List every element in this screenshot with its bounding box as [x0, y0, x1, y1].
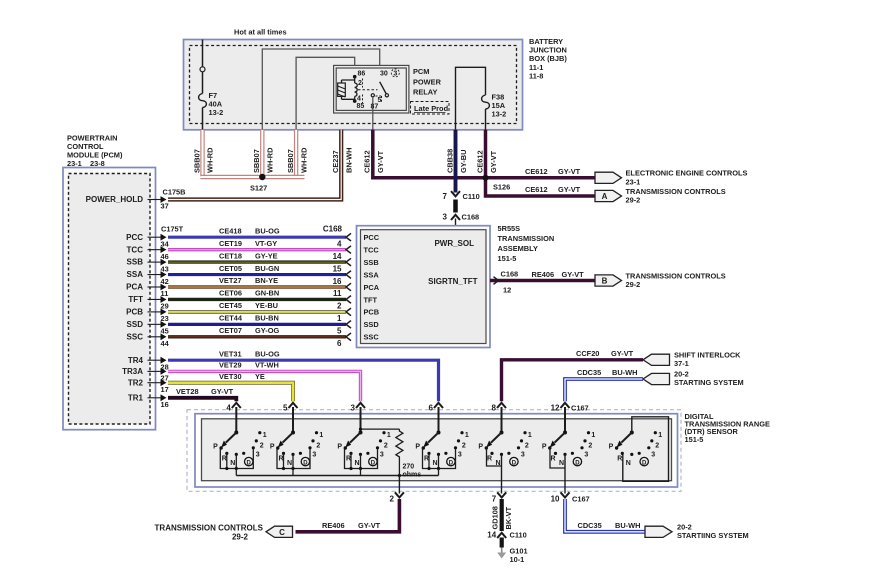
svg-text:87: 87: [371, 104, 379, 111]
svg-text:VT-GY: VT-GY: [255, 239, 277, 248]
svg-text:23-1: 23-1: [626, 178, 641, 187]
svg-text:29-2: 29-2: [626, 280, 641, 289]
svg-text:PCA: PCA: [364, 283, 380, 292]
svg-text:PCM: PCM: [413, 67, 429, 76]
svg-text:POWER: POWER: [413, 77, 442, 86]
svg-text:BU-WH: BU-WH: [612, 368, 637, 377]
svg-text:5R55S: 5R55S: [498, 224, 521, 233]
svg-text:CE612: CE612: [525, 185, 548, 194]
svg-text:CET05: CET05: [219, 264, 242, 273]
svg-text:TRANSMISSION: TRANSMISSION: [498, 234, 555, 243]
svg-text:3: 3: [393, 71, 397, 78]
svg-text:B: B: [602, 277, 608, 286]
svg-text:C: C: [279, 528, 285, 537]
svg-text:2: 2: [390, 495, 395, 504]
svg-text:GY-VT: GY-VT: [611, 349, 634, 358]
svg-text:7: 7: [443, 192, 448, 201]
svg-text:C168: C168: [323, 225, 343, 234]
svg-text:13-2: 13-2: [209, 108, 224, 117]
svg-text:37-1: 37-1: [674, 359, 689, 368]
svg-text:Late Prod: Late Prod: [414, 104, 449, 113]
svg-text:1: 1: [658, 432, 662, 439]
svg-text:BU-GN: BU-GN: [255, 264, 279, 273]
svg-text:SSB: SSB: [364, 258, 379, 267]
svg-text:YE: YE: [255, 372, 265, 381]
svg-text:CET18: CET18: [219, 251, 242, 260]
svg-text:5: 5: [283, 404, 288, 413]
svg-text:37: 37: [161, 202, 169, 211]
svg-text:CET45: CET45: [219, 301, 242, 310]
svg-text:BU-OG: BU-OG: [255, 226, 280, 235]
svg-text:BU-WH: BU-WH: [615, 521, 640, 530]
svg-text:11: 11: [333, 289, 342, 298]
svg-text:10: 10: [551, 495, 560, 504]
svg-text:CCF20: CCF20: [576, 349, 599, 358]
svg-text:SSB: SSB: [127, 258, 144, 267]
svg-text:8: 8: [492, 404, 497, 413]
svg-text:WH-RD: WH-RD: [266, 147, 275, 173]
svg-text:17: 17: [161, 385, 169, 394]
svg-text:PWR_SOL: PWR_SOL: [434, 239, 474, 248]
svg-text:SBB07: SBB07: [193, 149, 202, 173]
svg-text:85: 85: [357, 103, 365, 110]
svg-text:CDC35: CDC35: [577, 368, 601, 377]
svg-text:SSA: SSA: [127, 270, 144, 279]
svg-text:C175T: C175T: [161, 225, 184, 234]
svg-text:7: 7: [492, 495, 497, 504]
svg-text:TR1: TR1: [128, 393, 144, 402]
svg-text:VT-WH: VT-WH: [255, 361, 279, 370]
svg-text:BN-YE: BN-YE: [255, 276, 278, 285]
svg-text:CET06: CET06: [219, 289, 242, 298]
svg-text:WH-RD: WH-RD: [206, 147, 215, 173]
svg-text:6: 6: [337, 339, 342, 348]
svg-text:Hot at all times: Hot at all times: [234, 28, 287, 37]
svg-text:BK-VT: BK-VT: [504, 506, 513, 529]
svg-text:5: 5: [337, 327, 342, 336]
svg-text:GY-VT: GY-VT: [558, 167, 581, 176]
svg-text:S127: S127: [250, 184, 267, 193]
svg-text:WH-RD: WH-RD: [300, 147, 309, 173]
svg-text:ELECTRONIC ENGINE CONTROLS: ELECTRONIC ENGINE CONTROLS: [626, 169, 748, 178]
svg-text:CE237: CE237: [331, 150, 340, 173]
svg-text:C110: C110: [463, 192, 480, 201]
svg-text:2: 2: [358, 80, 362, 87]
svg-text:29-2: 29-2: [232, 533, 249, 542]
svg-text:SSC: SSC: [364, 333, 380, 342]
svg-text:P: P: [609, 444, 614, 451]
svg-text:TRANSMISSION CONTROLS: TRANSMISSION CONTROLS: [626, 187, 726, 196]
svg-text:151-5: 151-5: [498, 254, 517, 263]
svg-text:N: N: [626, 460, 631, 467]
svg-text:SSD: SSD: [127, 320, 144, 329]
svg-text:11-8: 11-8: [529, 71, 543, 80]
svg-text:VET27: VET27: [219, 276, 242, 285]
svg-text:PCB: PCB: [126, 308, 143, 317]
svg-text:TR2: TR2: [128, 378, 144, 387]
svg-text:C168: C168: [501, 270, 519, 279]
svg-text:10-1: 10-1: [510, 555, 525, 564]
svg-text:4: 4: [226, 404, 231, 413]
svg-text:C167: C167: [572, 495, 590, 504]
svg-text:SSA: SSA: [364, 270, 380, 279]
svg-text:RELAY: RELAY: [413, 88, 437, 97]
svg-text:16: 16: [333, 277, 342, 286]
svg-text:6: 6: [429, 404, 434, 413]
svg-text:CDC35: CDC35: [578, 521, 602, 530]
svg-text:GY-VT: GY-VT: [376, 150, 385, 173]
svg-text:TCC: TCC: [364, 245, 380, 254]
svg-text:STARTIING SYSTEM: STARTIING SYSTEM: [677, 531, 749, 540]
svg-text:270: 270: [403, 464, 415, 471]
svg-text:12: 12: [551, 404, 560, 413]
svg-text:BU-BN: BU-BN: [255, 314, 279, 323]
svg-text:C110: C110: [510, 531, 527, 540]
svg-text:86: 86: [358, 71, 366, 78]
svg-text:C167: C167: [571, 404, 589, 413]
svg-text:23-1: 23-1: [67, 159, 82, 168]
svg-text:RE406: RE406: [532, 270, 555, 279]
svg-text:15: 15: [333, 264, 342, 273]
svg-text:2: 2: [337, 302, 342, 311]
svg-text:STARTING SYSTEM: STARTING SYSTEM: [674, 378, 744, 387]
svg-text:3: 3: [651, 452, 655, 459]
svg-text:3: 3: [443, 213, 448, 222]
svg-text:TR3A: TR3A: [122, 367, 143, 376]
svg-text:YE-BU: YE-BU: [255, 301, 278, 310]
svg-text:PCB: PCB: [364, 308, 380, 317]
svg-text:TCC: TCC: [127, 245, 144, 254]
svg-text:CE612: CE612: [525, 167, 548, 176]
svg-text:1: 1: [337, 314, 342, 323]
svg-text:GN-BN: GN-BN: [255, 289, 279, 298]
svg-text:GY-VT: GY-VT: [489, 150, 498, 173]
svg-text:PCC: PCC: [364, 233, 380, 242]
svg-text:S126: S126: [493, 183, 510, 192]
svg-text:4: 4: [337, 239, 342, 248]
svg-text:29-2: 29-2: [626, 195, 641, 204]
svg-text:VET29: VET29: [219, 361, 242, 370]
svg-text:CE418: CE418: [219, 226, 242, 235]
svg-text:GY-OG: GY-OG: [255, 326, 279, 335]
svg-text:14: 14: [487, 531, 496, 540]
svg-text:4: 4: [357, 96, 361, 103]
svg-text:GY-VT: GY-VT: [558, 185, 581, 194]
svg-text:GY-BU: GY-BU: [459, 150, 468, 173]
svg-text:44: 44: [161, 339, 170, 348]
svg-text:GD108: GD108: [491, 506, 500, 529]
svg-text:PCC: PCC: [126, 233, 143, 242]
svg-text:12: 12: [503, 286, 511, 295]
svg-text:R: R: [617, 456, 622, 463]
svg-text:ohms: ohms: [403, 472, 422, 479]
svg-text:2: 2: [655, 443, 659, 450]
svg-text:TRANSMISSION CONTROLS: TRANSMISSION CONTROLS: [155, 524, 264, 533]
svg-text:POWER_HOLD: POWER_HOLD: [86, 195, 144, 204]
svg-text:CET44: CET44: [219, 314, 243, 323]
svg-text:SIGRTN_TFT: SIGRTN_TFT: [428, 277, 477, 286]
svg-text:ASSEMBLY: ASSEMBLY: [498, 244, 538, 253]
svg-text:BU-OG: BU-OG: [255, 349, 280, 358]
svg-text:VET30: VET30: [219, 372, 242, 381]
svg-text:TRANSMISSION CONTROLS: TRANSMISSION CONTROLS: [626, 271, 726, 280]
svg-text:C168: C168: [462, 213, 480, 222]
svg-text:TFT: TFT: [128, 295, 143, 304]
svg-text:GY-VT: GY-VT: [211, 387, 234, 396]
svg-text:VET28: VET28: [176, 387, 199, 396]
svg-text:PCA: PCA: [126, 283, 143, 292]
svg-text:GY-YE: GY-YE: [255, 251, 278, 260]
svg-text:TFT: TFT: [364, 295, 378, 304]
svg-text:SBB07: SBB07: [286, 149, 295, 173]
svg-text:C175B: C175B: [163, 188, 186, 197]
svg-text:CET07: CET07: [219, 326, 242, 335]
svg-text:GY-VT: GY-VT: [358, 521, 381, 530]
svg-text:GY-VT: GY-VT: [562, 270, 585, 279]
svg-text:3: 3: [351, 404, 356, 413]
svg-text:SBB07: SBB07: [252, 149, 261, 173]
svg-text:CE612: CE612: [363, 150, 372, 173]
svg-text:23-8: 23-8: [90, 159, 105, 168]
svg-text:A: A: [602, 192, 608, 201]
svg-text:151-5: 151-5: [685, 435, 704, 444]
svg-text:D: D: [642, 460, 647, 466]
svg-text:CET19: CET19: [219, 239, 242, 248]
svg-text:30: 30: [380, 71, 388, 78]
svg-text:BN-WH: BN-WH: [345, 148, 354, 173]
svg-text:13-2: 13-2: [492, 110, 507, 119]
svg-text:TR4: TR4: [128, 356, 144, 365]
svg-text:VET31: VET31: [219, 349, 242, 358]
svg-text:CBB38: CBB38: [446, 149, 455, 173]
svg-text:CE612: CE612: [476, 150, 485, 173]
svg-text:RE406: RE406: [322, 521, 345, 530]
svg-text:16: 16: [161, 400, 169, 409]
svg-text:SSC: SSC: [127, 332, 144, 341]
svg-text:SSD: SSD: [364, 320, 380, 329]
svg-text:14: 14: [333, 252, 342, 261]
